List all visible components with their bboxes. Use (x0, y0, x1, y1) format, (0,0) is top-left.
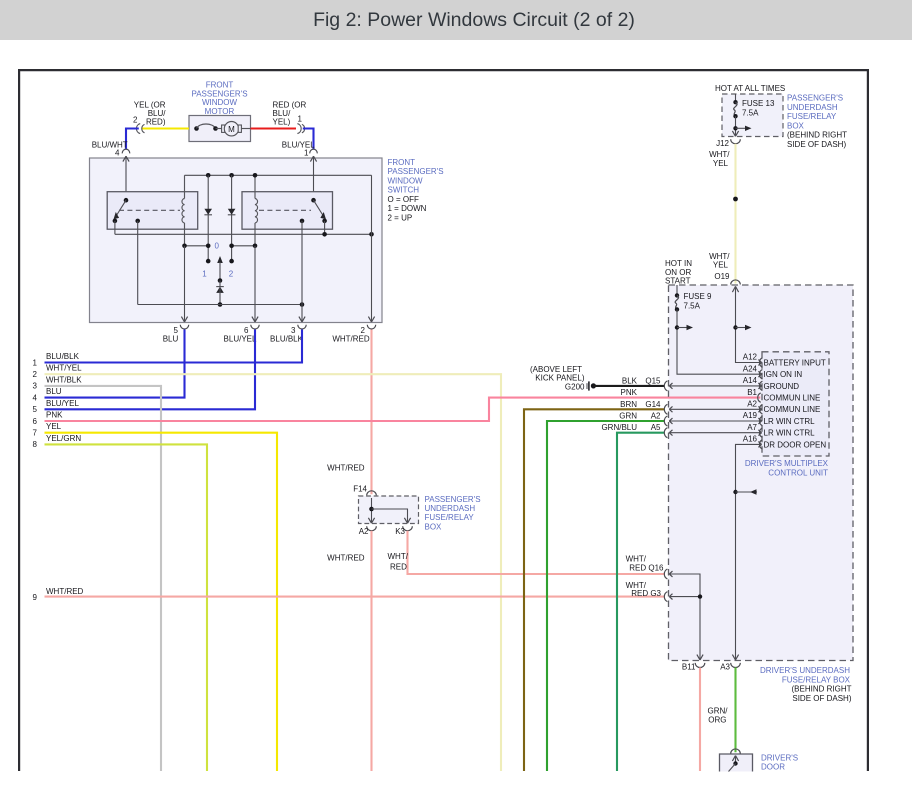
svg-text:LR WIN CTRL: LR WIN CTRL (764, 429, 816, 438)
svg-text:BLU/BLK: BLU/BLK (46, 352, 80, 361)
svg-text:2: 2 (229, 270, 234, 279)
svg-text:YEL: YEL (46, 422, 62, 431)
label FRONT PASSENGER'S WINDOW SWITCH legend (388, 158, 444, 222)
svg-text:FUSE/RELAY BOX: FUSE/RELAY BOX (782, 675, 851, 684)
svg-text:SIDE OF DASH): SIDE OF DASH) (792, 694, 851, 703)
svg-text:A3: A3 (720, 663, 730, 672)
svg-text:B1: B1 (747, 388, 757, 397)
svg-text:5: 5 (174, 326, 179, 335)
node 5 label BLU/YEL (33, 399, 80, 414)
fuse F13 FUSE 13 7.5A (733, 94, 775, 136)
wire PNK inside box to B1 (669, 397, 761, 399)
svg-text:A2: A2 (747, 400, 757, 409)
svg-text:DR DOOR OPEN: DR DOOR OPEN (764, 440, 827, 449)
svg-text:GRN/BLU: GRN/BLU (601, 423, 637, 432)
wire BLU/YEL from pin 6 (45, 330, 256, 410)
svg-text:RED Q16: RED Q16 (629, 564, 664, 573)
svg-text:RED: RED (390, 563, 407, 572)
svg-text:UNDERDASH: UNDERDASH (425, 504, 476, 513)
label BLK Q15 (622, 376, 661, 385)
svg-text:FRONT: FRONT (206, 81, 234, 90)
label GRN/BLU A5 (601, 423, 661, 432)
contact row 0 (182, 242, 257, 251)
svg-text:O19: O19 (714, 272, 730, 281)
coil right (255, 175, 258, 246)
dashed actuator line left (119, 209, 180, 211)
svg-text:A7: A7 (747, 423, 757, 432)
svg-text:BATTERY INPUT: BATTERY INPUT (764, 358, 826, 367)
wire BLU/WHT from connector 2 down to switch pin 4 (126, 129, 139, 150)
svg-text:6: 6 (33, 417, 38, 426)
wire RED (OR BLU/YEL) from motor (251, 127, 297, 129)
connector 2 at motor left (133, 115, 144, 133)
wire FUSE 9 to A24 (675, 309, 761, 374)
svg-text:BLU/WHT: BLU/WHT (92, 141, 128, 150)
svg-text:1: 1 (304, 148, 309, 157)
svg-text:PASSENGER'S: PASSENGER'S (425, 495, 481, 504)
node 3 wire WHT/BLK (33, 375, 161, 771)
svg-text:RED): RED) (146, 117, 166, 126)
svg-text:COMMUN LINE: COMMUN LINE (764, 394, 821, 403)
pin A14 GROUND wire from Q15 (669, 376, 799, 391)
pin 3 column wire (301, 221, 303, 322)
title bar (0, 0, 912, 40)
pin 2 column wire (371, 175, 373, 322)
pin A24 IGN ON IN (743, 364, 803, 379)
connector A3 below box (720, 655, 740, 672)
svg-text:GRN/: GRN/ (708, 707, 729, 716)
pin A2 COMMUN LINE wire from G14 (669, 400, 820, 415)
svg-text:WHT/RED: WHT/RED (327, 553, 365, 562)
svg-text:PNK: PNK (621, 388, 638, 397)
svg-text:COMMUN LINE: COMMUN LINE (764, 405, 821, 414)
svg-text:HOT AT ALL TIMES: HOT AT ALL TIMES (715, 84, 785, 93)
connector 1 at motor right (297, 115, 304, 134)
svg-text:A24: A24 (743, 364, 758, 373)
ground G200 (530, 365, 596, 391)
svg-text:4: 4 (115, 148, 120, 157)
svg-text:YEL: YEL (713, 260, 729, 269)
svg-text:MOTOR: MOTOR (205, 107, 235, 116)
svg-text:G200: G200 (565, 383, 585, 392)
connector F14 into passenger's fuse box (353, 485, 376, 504)
fuse 13 box passenger's underdash (722, 94, 783, 137)
mid rail y234 inside switch (115, 221, 374, 237)
svg-text:BLU/YEL: BLU/YEL (46, 399, 79, 408)
connector O19 on box top (731, 280, 741, 292)
svg-text:UNDERDASH: UNDERDASH (787, 103, 838, 112)
driver's underdash fuse/relay box (dashed) (669, 285, 854, 661)
pin 6 column wire (254, 246, 256, 322)
label WHT/YEL O19 (709, 252, 730, 281)
wire pin4 to left switch pivot (125, 156, 127, 200)
node 1 label BLU/BLK (33, 352, 80, 367)
label HOT IN ON OR START (665, 259, 692, 285)
svg-text:BLU/YEL: BLU/YEL (224, 335, 257, 344)
wire WHT/RED from pin 2 down page (370, 330, 372, 495)
svg-text:Q15: Q15 (645, 376, 661, 385)
svg-text:A2: A2 (359, 527, 369, 536)
svg-text:8: 8 (33, 440, 38, 449)
svg-text:RED G3: RED G3 (631, 589, 661, 598)
svg-text:WINDOW: WINDOW (202, 98, 238, 107)
wire WHT/RED from K3 to Q16 (408, 531, 665, 574)
relay K-left box (107, 192, 198, 230)
label BRN G14 (620, 400, 661, 409)
svg-text:IGN ON IN: IGN ON IN (764, 370, 803, 379)
svg-text:7.5A: 7.5A (684, 301, 701, 310)
svg-text:FUSE 13: FUSE 13 (742, 99, 775, 108)
svg-text:WHT/: WHT/ (626, 555, 647, 564)
label WHT/YEL at J12 (709, 150, 730, 168)
svg-text:O = OFF: O = OFF (388, 195, 419, 204)
diode D1 column (204, 175, 212, 261)
label WHT/RED at K3 wire (388, 552, 409, 572)
svg-text:4: 4 (33, 393, 38, 402)
wire BRN from bottom to G14 (524, 409, 665, 771)
label PASSENGER'S UNDERDASH FUSE/RELAY BOX (BEHIND RIGHT SIDE OF DASH) (787, 94, 847, 150)
top bus rail inside switch (185, 173, 372, 178)
svg-text:FUSE/RELAY: FUSE/RELAY (425, 513, 475, 522)
svg-text:BLU: BLU (163, 335, 179, 344)
driver's multiplex control unit box (762, 352, 829, 456)
node 4 label BLU (33, 387, 62, 402)
node 9 wire WHT/RED to G3 (33, 587, 665, 602)
splice on WHT/YEL wire (733, 197, 738, 202)
label YEL (OR BLU/RED) (134, 101, 166, 127)
svg-text:M: M (228, 125, 235, 134)
fuse F9 FUSE 9 7.5A (675, 285, 712, 312)
svg-text:BRN: BRN (620, 400, 637, 409)
connector pin 3 at switch bottom (291, 317, 306, 335)
svg-text:WHT/RED: WHT/RED (327, 464, 365, 473)
connector A2 at box edge (664, 416, 667, 426)
connector pin 1 at switch top (304, 148, 317, 161)
svg-text:PASSENGER'S: PASSENGER'S (388, 167, 444, 176)
svg-text:5: 5 (33, 405, 38, 414)
svg-text:9: 9 (33, 593, 38, 602)
label RED (OR BLU/YEL) (273, 101, 307, 127)
connector K3 below box (395, 518, 412, 536)
svg-text:WHT/: WHT/ (388, 552, 409, 561)
pin B1 COMMUN LINE (747, 388, 820, 403)
diode D2 column (228, 175, 236, 261)
svg-text:1: 1 (33, 358, 38, 367)
relay K-right box (242, 192, 333, 230)
connector G14 at box edge (664, 404, 667, 414)
svg-text:GRN: GRN (619, 412, 637, 421)
motor M1 label FRONT PASSENGER'S WINDOW MOTOR (191, 81, 247, 116)
svg-text:WHT/YEL: WHT/YEL (46, 364, 82, 373)
svg-text:A14: A14 (743, 376, 758, 385)
node 2 wire WHT/YEL (33, 364, 501, 771)
pin A7 LR WIN CTRL wire from A5 (669, 423, 815, 438)
svg-text:A16: A16 (743, 435, 758, 444)
svg-text:DRIVER'S UNDERDASH: DRIVER'S UNDERDASH (760, 666, 850, 675)
connector B11 below box (682, 655, 705, 672)
svg-text:3: 3 (33, 382, 38, 391)
connector pin 2 at switch bottom (361, 317, 376, 335)
wire O19 to A12 (733, 286, 760, 362)
svg-text:YEL/GRN: YEL/GRN (46, 434, 81, 443)
wire BLU/YEL from connector 1 down to switch pin 1 (303, 129, 314, 150)
svg-text:2: 2 (361, 326, 366, 335)
svg-text:F14: F14 (353, 485, 367, 494)
connector pin 5 at switch bottom (174, 317, 189, 335)
switch contact right (300, 198, 327, 223)
svg-text:YEL: YEL (713, 159, 729, 168)
svg-text:BOX: BOX (425, 522, 443, 531)
connector A5 at box edge (664, 428, 667, 438)
connector Q16 at box edge (664, 569, 700, 660)
svg-text:DRIVER'S MULTIPLEX: DRIVER'S MULTIPLEX (745, 459, 829, 468)
label GRN/ORG (708, 707, 729, 725)
svg-text:WHT/BLK: WHT/BLK (46, 375, 82, 384)
svg-text:B11: B11 (682, 663, 696, 672)
svg-text:BLK: BLK (622, 376, 638, 385)
svg-text:WINDOW: WINDOW (388, 176, 424, 185)
node 6 wire PNK to B1 (33, 398, 669, 426)
svg-text:7.5A: 7.5A (742, 108, 759, 117)
svg-text:CONTROL UNIT: CONTROL UNIT (768, 468, 828, 477)
svg-text:FRONT: FRONT (388, 158, 416, 167)
pin A19 LR WIN CTRL wire from A2 (669, 411, 815, 426)
passenger's underdash fuse/relay box F14 (359, 496, 419, 524)
svg-text:3: 3 (291, 326, 296, 335)
wire BLK from G200 to Q15 (593, 385, 664, 387)
wire WHT/RED from B11 down (699, 668, 701, 772)
svg-text:BLU/YEL: BLU/YEL (282, 141, 315, 150)
svg-text:1: 1 (202, 270, 207, 279)
connector G3 at box edge (664, 592, 702, 602)
svg-text:SIDE OF DASH): SIDE OF DASH) (787, 140, 846, 149)
bottom rail y304 inside switch (138, 221, 305, 307)
svg-text:YEL): YEL) (273, 117, 291, 126)
svg-text:START: START (665, 276, 691, 285)
svg-text:BOX: BOX (787, 121, 805, 130)
motor M1 front passenger's window motor (189, 116, 251, 142)
svg-text:A19: A19 (743, 411, 758, 420)
svg-text:BLU/BLK: BLU/BLK (270, 335, 304, 344)
svg-text:PASSENGER'S: PASSENGER'S (787, 94, 843, 103)
svg-text:1: 1 (298, 115, 303, 124)
selector common pole arrow (217, 256, 223, 283)
dashed actuator line right (259, 209, 311, 211)
svg-text:GROUND: GROUND (764, 382, 800, 391)
switch contact left (113, 198, 140, 223)
wire GRN from bottom to A2 (547, 421, 665, 771)
svg-text:2 = UP: 2 = UP (388, 213, 413, 222)
svg-text:DOOR: DOOR (761, 763, 785, 772)
svg-text:(BEHIND RIGHT: (BEHIND RIGHT (787, 131, 847, 140)
svg-text:A2: A2 (651, 412, 661, 421)
svg-text:A12: A12 (743, 353, 758, 362)
diode D3 column up-pointing (216, 281, 224, 307)
pin 5 column wire (184, 246, 186, 322)
svg-text:BLU: BLU (46, 387, 62, 396)
svg-text:(BEHIND RIGHT: (BEHIND RIGHT (792, 685, 852, 694)
svg-text:0: 0 (215, 242, 220, 251)
pin A16 DR DOOR OPEN (743, 435, 827, 450)
front passenger's window switch box (90, 158, 383, 323)
label PASSENGER'S UNDERDASH FUSE/RELAY BOX (425, 495, 481, 532)
node 8 wire YEL/GRN (33, 434, 207, 771)
svg-text:6: 6 (244, 326, 249, 335)
pin A12 BATTERY INPUT (743, 353, 826, 368)
svg-text:DRIVER'S: DRIVER'S (761, 753, 798, 762)
label GRN A2 (619, 412, 661, 421)
svg-text:FUSE 9: FUSE 9 (684, 292, 713, 301)
svg-text:KICK PANEL): KICK PANEL) (535, 374, 585, 383)
wire WHT/RED from A2 down page (370, 531, 372, 771)
wire pin1 to right switch pivot (313, 156, 315, 200)
svg-text:Fig 2: Power Windows Circuit (: Fig 2: Power Windows Circuit (2 of 2) (313, 9, 635, 31)
connector J12 below fuse 13 box (716, 131, 740, 148)
label DRIVER'S MULTIPLEX CONTROL UNIT (745, 459, 829, 477)
svg-text:WHT/RED: WHT/RED (46, 587, 84, 596)
svg-text:WHT/RED: WHT/RED (332, 335, 370, 344)
wire GRN/BLU from bottom to A5 (617, 433, 665, 771)
wire BLU from pin 5 (45, 330, 185, 398)
wire WHT/YEL J12 down to O19 (734, 144, 736, 284)
driver's door switch box (720, 749, 753, 772)
svg-text:2: 2 (133, 115, 138, 124)
wire YEL (OR BLU/RED) to motor (142, 127, 189, 129)
svg-text:2: 2 (33, 370, 38, 379)
wire A16 down to A3 with branch (733, 444, 760, 660)
node 7 wire YEL (33, 422, 277, 771)
svg-text:FUSE/RELAY: FUSE/RELAY (787, 112, 837, 121)
label DRIVER'S UNDERDASH FUSE/RELAY BOX (BEHIND RIGHT SIDE OF DASH) (760, 666, 852, 703)
svg-text:7: 7 (33, 429, 38, 438)
connector A2 below box (359, 518, 377, 536)
svg-text:SWITCH: SWITCH (388, 186, 420, 195)
svg-text:HOT IN: HOT IN (665, 259, 692, 268)
connector Q15 at box edge (664, 381, 667, 391)
connector pin 4 at switch top (115, 148, 130, 161)
label WHT/RED Q16 (626, 555, 664, 573)
wire BLU/BLK from pin 3 (45, 330, 303, 363)
label DRIVER'S DOOR (761, 753, 798, 771)
svg-text:A5: A5 (651, 423, 661, 432)
wire GRN/ORG from A3 down (734, 668, 736, 753)
svg-text:K3: K3 (395, 527, 405, 536)
connector pin 6 at switch bottom (244, 317, 259, 335)
svg-text:G14: G14 (645, 400, 661, 409)
svg-text:ORG: ORG (708, 716, 726, 725)
svg-text:1 = DOWN: 1 = DOWN (388, 204, 427, 213)
wire color labels under switch (163, 335, 370, 344)
contacts 1 and 2 (202, 259, 234, 279)
svg-text:PASSENGER'S: PASSENGER'S (191, 89, 247, 98)
svg-text:PNK: PNK (46, 411, 63, 420)
coil left (182, 175, 185, 246)
svg-text:LR WIN CTRL: LR WIN CTRL (764, 417, 816, 426)
label WHT/RED G3 (626, 581, 662, 598)
svg-text:J12: J12 (716, 139, 729, 148)
